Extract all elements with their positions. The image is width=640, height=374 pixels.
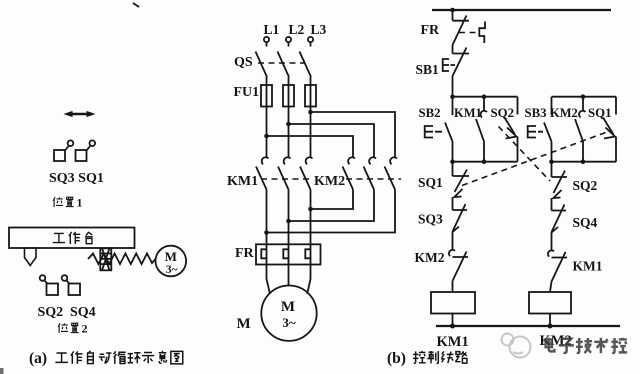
svg-text:KM1: KM1 bbox=[437, 334, 469, 350]
svg-text:FR: FR bbox=[235, 246, 255, 261]
wires FR to motor bbox=[267, 265, 311, 295]
caption (a) 工作自动循环示意图 bbox=[29, 350, 183, 367]
svg-text:KM1: KM1 bbox=[227, 174, 258, 189]
dog pointer under table bbox=[25, 248, 37, 266]
limit switch SQ2 contact (NO) bbox=[491, 97, 518, 162]
svg-text:SQ2: SQ2 bbox=[573, 178, 598, 193]
limit switch SQ2 (symbol) bbox=[40, 275, 58, 295]
node U crossover bbox=[264, 230, 269, 235]
label 位置1 bbox=[53, 196, 82, 210]
svg-text:L2: L2 bbox=[289, 22, 305, 37]
svg-text:M: M bbox=[237, 316, 251, 332]
start button SB2 (NO) bbox=[419, 97, 453, 162]
limit switch SQ1 contact (NC) bbox=[418, 162, 469, 210]
wire KM2 left pole to W node bbox=[311, 190, 354, 210]
terminal L2 bbox=[286, 22, 305, 42]
wire L1 vertical to KM1 bbox=[266, 107, 268, 158]
svg-text:2: 2 bbox=[82, 322, 88, 336]
watermark text 电子技术控 bbox=[546, 338, 628, 353]
mechanical link SQ1 (dashed) bbox=[462, 131, 611, 186]
wire right group top bus bbox=[552, 96, 617, 98]
label 位置2 bbox=[58, 322, 87, 336]
watermark logo bbox=[502, 334, 531, 358]
terminal L1 bbox=[264, 22, 280, 42]
svg-text:3~: 3~ bbox=[282, 315, 296, 330]
wire left group top bus bbox=[453, 96, 518, 98]
svg-text:KM2: KM2 bbox=[550, 106, 578, 120]
wire left group bottom bus bbox=[453, 161, 518, 163]
node L2 tap bbox=[286, 122, 291, 127]
coil KM1 bbox=[431, 292, 475, 314]
coil KM2 bbox=[529, 292, 571, 314]
contact KM2 interlock (NC) bbox=[415, 250, 469, 292]
contactor KM1 main contacts bbox=[227, 157, 313, 189]
wire KM2 mid pole to V node bbox=[289, 190, 375, 222]
node L1 tap bbox=[264, 134, 269, 139]
wires QS to fuses bbox=[267, 77, 311, 85]
svg-text:SB3: SB3 bbox=[525, 106, 547, 120]
node KM1 coil rail bbox=[450, 324, 455, 329]
limit switch SQ1 (symbol) bbox=[76, 140, 96, 161]
spring / lead screw zigzag bbox=[88, 254, 156, 265]
wire SB1 to branch node bbox=[452, 76, 454, 97]
node W crossover bbox=[308, 207, 313, 212]
wire L1 feeder to KM2 left pole bbox=[267, 136, 354, 158]
wire phase U vertical KM1 to FR bbox=[266, 190, 268, 245]
node right bus bbox=[581, 94, 586, 99]
double motion arrow bbox=[64, 111, 96, 117]
node left bottom B bbox=[482, 159, 487, 164]
terminal L3 bbox=[308, 22, 327, 42]
svg-text:SQ3: SQ3 bbox=[418, 212, 443, 227]
wire phase V vertical KM1 to FR bbox=[288, 190, 290, 245]
stop button SB1 (NC) bbox=[416, 48, 470, 78]
svg-text:SQ1: SQ1 bbox=[588, 106, 611, 120]
svg-text:M: M bbox=[165, 249, 177, 264]
stray scan mark bottom-left bbox=[0, 368, 4, 374]
contact KM1 interlock (NC) bbox=[548, 250, 603, 292]
fuse FU1 (three) bbox=[234, 85, 317, 107]
svg-text:SQ2: SQ2 bbox=[491, 106, 514, 120]
wire L3 vertical to KM1 bbox=[310, 107, 312, 158]
wire phase W vertical KM1 to FR bbox=[310, 190, 312, 245]
motor M 3~ (mechanical) bbox=[156, 246, 187, 277]
svg-text:(a): (a) bbox=[29, 350, 47, 367]
svg-text:SB1: SB1 bbox=[416, 62, 440, 77]
svg-text:KM1: KM1 bbox=[454, 106, 482, 120]
svg-text:M: M bbox=[281, 299, 295, 315]
svg-text:(b): (b) bbox=[387, 350, 406, 367]
svg-text:FR: FR bbox=[421, 23, 441, 38]
wire right group bottom bus bbox=[552, 161, 617, 163]
svg-text:KM2: KM2 bbox=[415, 250, 445, 265]
limit switch SQ4 contact (NC) bbox=[552, 205, 598, 251]
contact KM1 aux (NO) bbox=[454, 97, 487, 162]
svg-text:SQ1: SQ1 bbox=[418, 175, 443, 190]
svg-text:SQ3 SQ1: SQ3 SQ1 bbox=[49, 171, 104, 186]
svg-text:3~: 3~ bbox=[166, 264, 178, 276]
svg-text:SQ4: SQ4 bbox=[573, 215, 598, 230]
worktable box 工作台 bbox=[9, 228, 135, 249]
svg-text:KM2: KM2 bbox=[314, 174, 345, 189]
wire bottom supply rail bbox=[436, 325, 620, 327]
svg-text:SQ4: SQ4 bbox=[70, 305, 96, 320]
svg-text:QS: QS bbox=[234, 55, 253, 70]
wire L2 feeder to KM2 mid pole bbox=[289, 124, 375, 158]
wire KM1 coil to rail bbox=[452, 314, 454, 327]
node left bus B bbox=[482, 94, 487, 99]
contact KM2 aux (NO) bbox=[550, 97, 586, 162]
switch QS bbox=[234, 42, 311, 77]
wire L2 vertical to KM1 bbox=[288, 107, 290, 158]
thermal relay FR heaters bbox=[235, 244, 321, 264]
node left bus A bbox=[450, 94, 455, 99]
node V crossover bbox=[286, 219, 291, 224]
svg-text:L3: L3 bbox=[311, 22, 327, 37]
node KM2 coil rail bbox=[548, 324, 553, 329]
wire KM2 right pole to U node bbox=[267, 190, 396, 233]
svg-text:KM1: KM1 bbox=[573, 259, 603, 274]
wire KM2 coil to rail bbox=[549, 314, 551, 327]
node L3 tap bbox=[308, 110, 313, 115]
lead screw nut block (hatched) bbox=[100, 248, 111, 270]
limit switch SQ2 contact (NC) bbox=[552, 162, 598, 211]
node right bottom A bbox=[549, 159, 554, 164]
svg-text:SQ2: SQ2 bbox=[38, 305, 64, 320]
node rail tap bbox=[450, 8, 455, 13]
start button SB3 (NO) bbox=[525, 97, 552, 162]
limit switch SQ3 contact (NC) bbox=[418, 204, 467, 250]
svg-text:FU1: FU1 bbox=[234, 85, 260, 100]
svg-text:1: 1 bbox=[77, 196, 83, 210]
contactor KM2 main contacts bbox=[314, 157, 401, 189]
wire top supply rail bbox=[432, 9, 611, 11]
stray scan mark top bbox=[133, 3, 139, 7]
svg-text:L1: L1 bbox=[264, 22, 280, 37]
wire L3 feeder to KM2 right pole bbox=[311, 112, 396, 158]
thermal relay FR NC contact bbox=[421, 10, 486, 54]
motor M 3~ bbox=[261, 286, 316, 341]
node left bottom A bbox=[450, 159, 455, 164]
svg-text:SB2: SB2 bbox=[419, 106, 441, 120]
limit switch SQ4 (symbol) bbox=[62, 275, 80, 295]
mechanical link SQ2 (dashed) bbox=[499, 127, 551, 182]
caption (b) 控制线路 bbox=[387, 350, 467, 367]
limit switch SQ1 contact (NO) bbox=[588, 97, 616, 162]
limit switch SQ3 (symbol) bbox=[54, 140, 73, 161]
node right bottom B bbox=[581, 159, 586, 164]
